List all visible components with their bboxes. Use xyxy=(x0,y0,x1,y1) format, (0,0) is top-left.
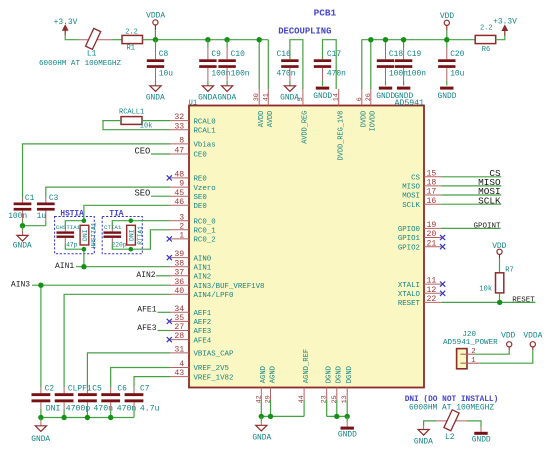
svg-text:R7: R7 xyxy=(505,266,514,274)
svg-text:9: 9 xyxy=(179,180,184,189)
svg-text:C5: C5 xyxy=(92,384,102,393)
net label AIN2 (pin 37) xyxy=(136,271,170,280)
wire L2 right to GNDD xyxy=(467,421,481,427)
svg-text:3: 3 xyxy=(179,213,184,222)
junction HSTIA top xyxy=(82,218,87,223)
svg-text:28: 28 xyxy=(174,332,184,341)
svg-text:XTALO: XTALO xyxy=(398,291,421,299)
svg-text:AIN4/LPF0: AIN4/LPF0 xyxy=(194,292,234,300)
svg-text:PCB1: PCB1 xyxy=(314,8,337,19)
svg-text:100n: 100n xyxy=(231,69,250,78)
svg-text:1u: 1u xyxy=(37,212,47,221)
resistor HHSTIA1 DNI xyxy=(80,222,97,248)
svg-text:C10: C10 xyxy=(231,50,245,59)
ground GNDD (DGND) xyxy=(338,421,357,439)
HSTIA dashed box xyxy=(55,217,95,254)
label 6000HM AT 100MEGHZ (L2) xyxy=(409,404,494,413)
inductor L2 (ferrite bead) xyxy=(436,410,467,442)
svg-text:44: 44 xyxy=(298,395,306,403)
junction AGND pin 42 xyxy=(259,414,264,419)
junction DGND pin 25 xyxy=(334,414,339,419)
junction AGND pin 29 xyxy=(268,414,273,419)
svg-text:GNDA: GNDA xyxy=(252,433,271,442)
ground GNDD (C20) xyxy=(438,87,457,101)
junction cap bank C2 xyxy=(38,415,43,420)
svg-text:23: 23 xyxy=(321,395,329,403)
wire DGND to GNDD xyxy=(346,416,348,421)
svg-text:41: 41 xyxy=(262,93,270,101)
svg-text:Vbias: Vbias xyxy=(194,142,216,150)
junction AIN1 at HSTIA xyxy=(81,264,86,269)
ground GNDA (C16) xyxy=(280,86,299,103)
svg-text:GNDD: GNDD xyxy=(438,92,457,101)
ground GNDA (cap bank) xyxy=(31,421,50,444)
svg-text:100n: 100n xyxy=(407,69,426,78)
svg-text:11: 11 xyxy=(427,277,437,286)
svg-text:AVDD: AVDD xyxy=(267,111,275,128)
svg-text:RCALL1: RCALL1 xyxy=(119,109,144,117)
wire C1 to GNDA xyxy=(22,226,24,231)
junction HSTIA bottom xyxy=(82,247,87,252)
svg-text:2.2: 2.2 xyxy=(480,25,493,33)
svg-text:RC0_1: RC0_1 xyxy=(194,228,217,236)
junction VDDA rail at pin 30 xyxy=(257,37,262,42)
net label SCLK (pin 16) xyxy=(441,195,501,206)
junction DGND pin 13 xyxy=(345,414,350,419)
capacitor C8 10u xyxy=(147,40,173,86)
svg-text:C18: C18 xyxy=(389,50,403,59)
svg-text:C9: C9 xyxy=(211,50,221,59)
svg-text:AGND: AGND xyxy=(260,366,268,383)
svg-text:DE0: DE0 xyxy=(194,203,207,211)
ground GNDA (C8) xyxy=(146,86,165,103)
wire AGND net xyxy=(261,400,304,416)
resistor R1 2.2 xyxy=(122,28,143,52)
junction VDDA rail at C10 xyxy=(224,37,229,42)
svg-text:DGND: DGND xyxy=(336,366,344,383)
svg-text:43: 43 xyxy=(174,369,184,378)
wire RCAL1 (pin 33) xyxy=(103,121,170,130)
svg-text:2.2: 2.2 xyxy=(125,28,138,36)
power VDDA (top left) xyxy=(146,12,165,31)
svg-text:J20: J20 xyxy=(462,331,476,339)
svg-text:38: 38 xyxy=(174,259,184,268)
label 6000HM AT 100MEGHZ (L1) xyxy=(39,60,121,68)
svg-text:RESET: RESET xyxy=(398,300,421,308)
svg-text:6000HM AT 100MEGHZ: 6000HM AT 100MEGHZ xyxy=(39,60,121,68)
svg-text:2: 2 xyxy=(179,222,184,231)
U1 right pins with numbers and names xyxy=(398,169,445,308)
ground GNDA (C10) xyxy=(217,86,236,103)
svg-text:MISO: MISO xyxy=(402,184,420,192)
svg-text:CTIA1: CTIA1 xyxy=(104,224,122,231)
capacitor C1 100n xyxy=(8,194,34,226)
wire Vbias net (pin 8 to C1) xyxy=(23,144,171,198)
svg-text:AFE1: AFE1 xyxy=(137,306,156,315)
svg-text:220p: 220p xyxy=(112,242,127,249)
svg-text:47: 47 xyxy=(174,147,184,156)
svg-text:AVDD: AVDD xyxy=(258,111,266,128)
svg-text:RESET: RESET xyxy=(512,296,535,304)
U1 top pins with numbers and names xyxy=(253,89,377,160)
net label AFE1 (pin 34) xyxy=(137,306,170,315)
svg-text:GNDA: GNDA xyxy=(146,94,165,103)
svg-text:AIN2: AIN2 xyxy=(136,271,155,280)
svg-text:GNDA: GNDA xyxy=(13,241,32,250)
wire +3.3V to L1 xyxy=(65,35,78,40)
svg-text:GNDD: GNDD xyxy=(472,435,491,444)
svg-text:IOVDD: IOVDD xyxy=(369,111,377,132)
capacitor C2 DNI xyxy=(32,384,61,417)
ground GNDD (L2) xyxy=(472,427,491,444)
label HSTIA xyxy=(60,210,84,218)
svg-text:VBIAS_CAP: VBIAS_CAP xyxy=(194,351,234,359)
svg-text:21: 21 xyxy=(427,239,437,248)
svg-text:AIN3/BUF_VREF1V8: AIN3/BUF_VREF1V8 xyxy=(194,283,265,291)
capacitor C5 470n xyxy=(78,384,113,417)
wire VDD to R7 xyxy=(499,258,501,272)
capacitor C17 470n xyxy=(314,50,346,86)
capacitor CTIA1 220p xyxy=(104,224,127,248)
svg-text:AIN2: AIN2 xyxy=(194,274,212,282)
wire RCAL0 (pin 32) xyxy=(142,120,170,122)
svg-text:RCAL0: RCAL0 xyxy=(194,118,216,126)
net label PCB1 xyxy=(314,8,337,19)
svg-text:TIA: TIA xyxy=(109,210,123,218)
junction VDD rail at C19 xyxy=(401,37,406,42)
net label MOSI (pin 17) xyxy=(441,186,501,197)
net label CEO (pin 47) xyxy=(135,146,171,156)
wire VREF_1V82 net (pin 43 to C7) xyxy=(134,377,170,387)
svg-text:470n: 470n xyxy=(327,69,346,78)
svg-text:GNDA: GNDA xyxy=(198,94,217,103)
power +3.3V (left) xyxy=(54,18,78,35)
net label SEO (pin 45) xyxy=(135,189,171,199)
svg-text:VDD: VDD xyxy=(492,242,506,251)
svg-text:C6: C6 xyxy=(117,384,127,393)
svg-text:XTALI: XTALI xyxy=(398,282,420,290)
svg-text:40: 40 xyxy=(174,287,184,296)
wire C1/C3 ground link xyxy=(23,225,46,227)
junction TIA bottom xyxy=(129,247,134,252)
wire R1 to VDDA node xyxy=(143,39,156,41)
ground GNDA (AGND) xyxy=(252,421,271,442)
ground GNDD (C19) xyxy=(394,87,413,101)
power +3.3V (right) xyxy=(493,18,517,36)
svg-text:RCAL1: RCAL1 xyxy=(194,127,217,135)
svg-text:AVDD_REG: AVDD_REG xyxy=(302,111,310,144)
svg-text:SE0: SE0 xyxy=(194,194,207,202)
svg-text:HHSTIA1: HHSTIA1 xyxy=(90,222,97,248)
svg-text:AEF1: AEF1 xyxy=(194,310,212,318)
svg-text:+3.3V: +3.3V xyxy=(493,18,517,27)
svg-text:C7: C7 xyxy=(140,384,150,393)
U1 left pins with numbers and names xyxy=(167,113,265,382)
power VDDA (J20) xyxy=(523,332,542,351)
svg-text:C20: C20 xyxy=(450,50,464,59)
wire TIA top node to RC0_0 (pin 3) xyxy=(131,220,170,222)
svg-text:+3.3V: +3.3V xyxy=(54,18,78,27)
svg-text:35: 35 xyxy=(174,314,184,323)
svg-text:AGND_REF: AGND_REF xyxy=(303,349,311,384)
svg-text:DECOUPLING: DECOUPLING xyxy=(278,26,331,36)
svg-text:39: 39 xyxy=(174,250,184,259)
svg-text:30: 30 xyxy=(253,93,261,101)
junction VDDA rail at C9 xyxy=(205,37,210,42)
svg-text:DVDD: DVDD xyxy=(360,111,368,128)
svg-text:6: 6 xyxy=(356,97,364,101)
svg-text:GNDD: GNDD xyxy=(394,92,413,101)
svg-text:100n: 100n xyxy=(389,69,408,78)
svg-text:12: 12 xyxy=(427,286,437,295)
power VDD (top) xyxy=(440,12,454,30)
junction cap bank C6 xyxy=(108,415,113,420)
svg-text:37: 37 xyxy=(174,268,184,277)
capacitor C16 470n xyxy=(277,50,299,86)
wire Vzero net (pin 9 to C3) xyxy=(46,187,170,197)
svg-text:MOSI: MOSI xyxy=(402,193,420,201)
svg-text:VDDA: VDDA xyxy=(146,12,165,21)
ground GNDA (C9) xyxy=(198,86,217,103)
svg-text:GNDD: GNDD xyxy=(338,431,357,440)
svg-text:AD5941_POWER: AD5941_POWER xyxy=(443,339,498,347)
svg-text:AIN1: AIN1 xyxy=(194,264,212,272)
capacitor CHSTIA1 47p xyxy=(56,224,81,248)
svg-text:RTIA1: RTIA1 xyxy=(137,226,144,245)
svg-text:DNI: DNI xyxy=(129,229,136,241)
svg-text:L2: L2 xyxy=(445,433,455,442)
resistor R7 10k xyxy=(479,266,514,293)
wire J20 pin 1 to VDDA xyxy=(480,350,533,363)
svg-text:CHSTIA1: CHSTIA1 xyxy=(56,224,81,231)
svg-text:C19: C19 xyxy=(407,50,421,59)
svg-text:DNI: DNI xyxy=(82,229,89,241)
svg-text:C16: C16 xyxy=(277,50,291,59)
svg-text:SCLK: SCLK xyxy=(402,202,420,210)
svg-text:4: 4 xyxy=(179,360,184,369)
svg-text:GPOINT: GPOINT xyxy=(473,223,501,231)
junction VDD rail at pin 26 xyxy=(368,37,373,42)
junction TIA top xyxy=(129,218,134,223)
power VDD (J20) xyxy=(501,332,515,351)
capacitor C3 1u xyxy=(37,194,59,226)
svg-text:4.7u: 4.7u xyxy=(140,405,160,414)
svg-text:VDD: VDD xyxy=(501,332,515,341)
wire VDDA rail xyxy=(156,40,269,89)
inductor L1 (ferrite bead) xyxy=(79,28,112,58)
wire R7 to RESET net xyxy=(499,293,501,303)
svg-text:14: 14 xyxy=(333,93,341,101)
svg-text:25: 25 xyxy=(331,395,339,403)
svg-text:VDD: VDD xyxy=(440,12,454,21)
svg-text:R1: R1 xyxy=(127,45,135,53)
svg-text:100n: 100n xyxy=(8,212,27,221)
svg-text:VDDA: VDDA xyxy=(523,332,542,341)
svg-text:4700p: 4700p xyxy=(66,405,91,414)
svg-text:10u: 10u xyxy=(159,69,173,78)
svg-text:10u: 10u xyxy=(450,69,464,78)
svg-text:C3: C3 xyxy=(49,194,59,203)
svg-text:13: 13 xyxy=(341,395,349,403)
wire J20 pin 2 to VDD xyxy=(474,350,510,354)
wire VDDA circle to rail xyxy=(154,30,156,40)
svg-text:10k: 10k xyxy=(479,285,492,293)
svg-text:VREF_1V82: VREF_1V82 xyxy=(194,374,234,382)
junction VDD rail at C18 xyxy=(383,37,388,42)
ground GNDA (C1/C3) xyxy=(13,231,32,251)
wire to GNDA (cap bank) xyxy=(40,418,42,422)
svg-text:22: 22 xyxy=(427,295,437,304)
svg-text:GPIO2: GPIO2 xyxy=(398,244,420,252)
capacitor C19 100n xyxy=(395,48,426,86)
svg-text:31: 31 xyxy=(174,346,184,355)
svg-text:CEO: CEO xyxy=(135,146,151,156)
svg-text:Vzero: Vzero xyxy=(194,185,216,193)
resistor R6 2.2 xyxy=(475,25,496,55)
svg-text:DVDD_REG_1V8: DVDD_REG_1V8 xyxy=(337,111,345,161)
svg-text:AIN0: AIN0 xyxy=(194,255,212,263)
capacitor C7 4.7u xyxy=(125,384,160,417)
svg-text:29: 29 xyxy=(265,395,273,403)
svg-text:42: 42 xyxy=(255,395,263,403)
svg-text:19: 19 xyxy=(427,221,437,230)
svg-text:GNDA: GNDA xyxy=(414,438,433,447)
svg-text:18: 18 xyxy=(427,179,437,188)
wire CHSTIA1 to node xyxy=(65,221,84,250)
svg-text:GNDD: GNDD xyxy=(313,92,332,101)
svg-text:L1: L1 xyxy=(87,50,97,59)
svg-text:27: 27 xyxy=(174,323,184,332)
svg-text:1: 1 xyxy=(179,232,184,241)
wire DGND net xyxy=(327,400,348,416)
label TIA xyxy=(109,210,123,218)
wire bottom cap bank ground xyxy=(41,417,134,419)
label DECOUPLING xyxy=(278,26,331,36)
net label GPOINT (pin 19) xyxy=(441,223,501,231)
connector J20 AD5941_POWER xyxy=(443,331,498,369)
wire VBIAS_CAP net (pin 31 to C5) xyxy=(87,353,170,387)
capacitor C18 100n xyxy=(377,48,408,86)
svg-text:15: 15 xyxy=(427,169,437,178)
net label AIN3 (pin 36) xyxy=(11,280,170,289)
junction VDDA rail at R1 xyxy=(153,37,158,42)
ground GNDD (C17) xyxy=(313,87,332,101)
svg-text:RC0_0: RC0_0 xyxy=(194,218,216,226)
svg-text:CLPF1: CLPF1 xyxy=(68,384,92,393)
svg-text:DGND: DGND xyxy=(346,366,354,383)
svg-text:8: 8 xyxy=(179,137,184,146)
U1 bottom pins with numbers and names xyxy=(255,349,354,404)
wire AGND to GNDA xyxy=(260,416,262,421)
wire L2 left to GNDA xyxy=(424,421,436,426)
ground GNDD (C18) xyxy=(376,87,395,101)
svg-text:36: 36 xyxy=(174,278,184,287)
net label AFE3 (pin 27) xyxy=(137,324,170,333)
svg-text:34: 34 xyxy=(174,305,184,314)
wire HSTIA top node to DE0 (pin 46) xyxy=(84,205,170,220)
svg-text:C2: C2 xyxy=(45,384,55,393)
svg-text:AFE3: AFE3 xyxy=(137,324,156,333)
wire LPF0 net (pin 40 to CLPF1) xyxy=(64,294,170,387)
junction RESET at R7 xyxy=(497,300,502,305)
capacitor C6 470n xyxy=(101,384,136,417)
svg-text:GPIO1: GPIO1 xyxy=(398,235,421,243)
wire CTIA1 to node xyxy=(112,221,131,250)
svg-text:20: 20 xyxy=(427,230,437,239)
label DNI (DO NOT INSTALL) xyxy=(405,396,499,404)
svg-text:GNDA: GNDA xyxy=(31,435,50,444)
svg-text:45: 45 xyxy=(174,189,184,198)
svg-text:26: 26 xyxy=(365,93,373,101)
svg-text:GNDD: GNDD xyxy=(376,92,395,101)
svg-text:SEO: SEO xyxy=(135,189,151,199)
wire DVDD_REG_1V8 net (C17 to pin 14) xyxy=(323,40,337,89)
svg-text:CS: CS xyxy=(411,175,420,183)
wire VDD rail xyxy=(362,30,475,89)
capacitor C9 100n xyxy=(199,40,230,86)
net label CS (pin 15) xyxy=(441,168,501,179)
svg-text:VREF_2V5: VREF_2V5 xyxy=(194,365,229,373)
net label MISO (pin 18) xyxy=(441,177,501,188)
svg-text:48: 48 xyxy=(174,171,184,180)
svg-text:C1: C1 xyxy=(25,194,35,203)
svg-text:46: 46 xyxy=(174,198,184,207)
junction cap bank C5 xyxy=(85,415,90,420)
svg-text:CE0: CE0 xyxy=(194,152,207,160)
resistor RTIA1 DNI xyxy=(127,225,144,245)
power VDD (R7) xyxy=(492,242,506,259)
svg-text:GPIO0: GPIO0 xyxy=(398,226,420,234)
svg-text:C8: C8 xyxy=(159,50,169,59)
capacitor C10 100n xyxy=(218,40,249,86)
svg-text:U1: U1 xyxy=(189,100,198,108)
TIA dashed box xyxy=(102,217,142,254)
ground GNDA (L2) xyxy=(414,426,433,447)
wire TIA bottom to RC0_1 (pin 2) xyxy=(131,230,170,249)
svg-text:RC0_2: RC0_2 xyxy=(194,237,216,245)
svg-text:1: 1 xyxy=(471,357,476,365)
svg-text:GNDA: GNDA xyxy=(217,94,236,103)
wire AVDD_REG net (C16 to pin 5) xyxy=(290,40,303,89)
junction AIN3 at C2 xyxy=(38,283,43,288)
svg-text:HSTIA: HSTIA xyxy=(60,210,84,218)
svg-text:R6: R6 xyxy=(482,46,490,54)
junction VDD rail at C20 xyxy=(444,37,449,42)
svg-text:AIN1: AIN1 xyxy=(55,262,74,271)
svg-text:GNDA: GNDA xyxy=(280,94,299,103)
net label AIN1 (pin 38) xyxy=(55,262,170,271)
capacitor CLPF1 4700p xyxy=(55,384,92,417)
net label RESET (pin 22) xyxy=(441,296,535,304)
junction cap bank CLPF1 xyxy=(61,415,66,420)
op-amp U1 AD5941 IC body xyxy=(189,99,425,388)
svg-text:470n: 470n xyxy=(277,69,296,78)
svg-text:DNI: DNI xyxy=(46,405,61,414)
svg-text:17: 17 xyxy=(427,188,437,197)
capacitor C20 10u xyxy=(438,48,465,86)
svg-text:C17: C17 xyxy=(327,50,341,59)
svg-text:16: 16 xyxy=(427,197,437,206)
svg-text:AIN3: AIN3 xyxy=(11,280,30,289)
wire VREF_2V5 net (pin 4 to C6) xyxy=(111,368,170,388)
svg-text:RE0: RE0 xyxy=(194,176,207,184)
svg-text:AFE3: AFE3 xyxy=(194,328,212,336)
svg-text:33: 33 xyxy=(174,122,184,131)
wire HSTIA bottom to AIN1 xyxy=(83,249,85,267)
wire R6 to +3.3V xyxy=(496,35,505,40)
svg-text:32: 32 xyxy=(174,113,184,122)
wire AIN3 to C2 xyxy=(40,285,42,387)
